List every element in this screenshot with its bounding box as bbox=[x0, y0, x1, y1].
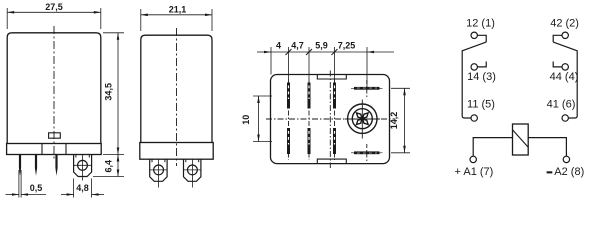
horizontal centerline bbox=[266, 118, 395, 120]
top horizontal slot bbox=[354, 87, 380, 90]
base flange bbox=[140, 143, 213, 160]
base flange bbox=[7, 144, 102, 155]
svg-text:4,7: 4,7 bbox=[291, 41, 304, 51]
mounting hole inner circle bbox=[352, 109, 372, 129]
svg-text:4: 4 bbox=[276, 41, 281, 51]
dimension 27,5 bbox=[7, 8, 101, 29]
wire coil to A1 bbox=[473, 138, 512, 157]
svg-text:10: 10 bbox=[241, 115, 251, 125]
pin 2 bbox=[35, 155, 37, 176]
terminal A2 bbox=[563, 156, 569, 162]
pin slots top row bbox=[287, 83, 290, 109]
body centerline bbox=[176, 28, 178, 166]
mounting tab bbox=[74, 155, 92, 177]
movable contact arm pole 1 bbox=[462, 42, 486, 118]
left screw hole bbox=[154, 165, 164, 175]
terminal 14 bbox=[471, 64, 477, 70]
body outline bbox=[141, 35, 212, 142]
dimension chain 4 / 4,7 / 5,9 / 7,25 bbox=[257, 47, 394, 87]
svg-text:A2 (8): A2 (8) bbox=[554, 166, 584, 178]
svg-text:34,5: 34,5 bbox=[103, 83, 113, 101]
wire 12 hook bbox=[477, 35, 486, 42]
wire 44 hook bbox=[553, 62, 562, 67]
right screw hole bbox=[188, 165, 198, 175]
label - A2 (8) bbox=[547, 171, 553, 173]
latch detail rectangle bbox=[49, 133, 61, 138]
terminal 41 bbox=[562, 115, 568, 121]
svg-text:11 (5): 11 (5) bbox=[467, 98, 495, 110]
outline bbox=[271, 75, 390, 164]
cross recess petals bbox=[355, 111, 369, 125]
vertical centerline bbox=[329, 71, 331, 169]
svg-text:21,1: 21,1 bbox=[169, 4, 187, 14]
coil K1 bbox=[513, 124, 529, 155]
svg-text:42 (2): 42 (2) bbox=[550, 18, 579, 30]
dimension 0,5 bbox=[6, 170, 47, 198]
svg-text:0,5: 0,5 bbox=[30, 183, 43, 193]
svg-text:14,2: 14,2 bbox=[389, 112, 399, 130]
wire 42 hook bbox=[553, 35, 562, 42]
hole crosshair bbox=[361, 100, 363, 139]
dimension 4,8 bbox=[61, 179, 104, 198]
pin slots bottom row bbox=[287, 128, 290, 154]
svg-text:41 (6): 41 (6) bbox=[547, 98, 576, 110]
terminal A1 bbox=[470, 156, 476, 162]
wire coil to A2 bbox=[528, 138, 566, 157]
flange divider left bbox=[41, 144, 43, 155]
body centerline bbox=[53, 26, 55, 161]
svg-text:12 (1): 12 (1) bbox=[466, 18, 495, 30]
terminal 42 bbox=[562, 32, 568, 38]
wire 14 hook bbox=[477, 62, 486, 67]
svg-text:27,5: 27,5 bbox=[45, 2, 63, 12]
flange divider right bbox=[65, 144, 67, 155]
bottom notch bbox=[317, 159, 346, 164]
pin 3 bbox=[55, 155, 57, 176]
relay body outline bbox=[7, 33, 101, 144]
dimension 34,5 bbox=[103, 33, 124, 155]
svg-text:44 (4): 44 (4) bbox=[550, 71, 579, 83]
left mounting tab bbox=[150, 159, 167, 181]
terminal 12 bbox=[471, 32, 477, 38]
terminal 44 bbox=[562, 64, 568, 70]
terminal 11 bbox=[471, 115, 477, 121]
top notch bbox=[317, 75, 346, 80]
pin 1 bbox=[19, 155, 21, 176]
right mounting tab bbox=[184, 159, 201, 181]
dimension 10 bbox=[253, 96, 272, 142]
dimension 6,4 bbox=[93, 155, 124, 177]
tab screw hole bbox=[78, 160, 88, 170]
mounting hole outer circle bbox=[348, 104, 377, 133]
movable contact arm pole 2 bbox=[553, 42, 577, 118]
coil diagonal bbox=[513, 130, 529, 147]
dimension 21,1 bbox=[141, 9, 212, 31]
svg-text:4,8: 4,8 bbox=[76, 183, 89, 193]
svg-text:+ A1 (7): + A1 (7) bbox=[455, 166, 494, 178]
bottom horizontal slot bbox=[354, 151, 380, 154]
pin column centerlines bbox=[288, 79, 290, 160]
svg-text:5,9: 5,9 bbox=[315, 41, 328, 51]
svg-text:7,25: 7,25 bbox=[338, 41, 356, 51]
svg-text:14 (3): 14 (3) bbox=[467, 71, 496, 83]
dimension 14,2 bbox=[391, 88, 410, 153]
svg-text:6,4: 6,4 bbox=[103, 160, 113, 173]
